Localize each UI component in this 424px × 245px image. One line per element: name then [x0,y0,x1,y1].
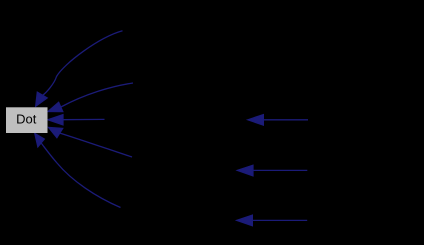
arrowhead edge node2->Dot [48,102,63,112]
arrowhead right B [237,165,253,176]
arrowhead right C [236,215,252,226]
edge from right node C to node5 : horizontal arrow [253,219,308,221]
edge from right node B to node4 : horizontal arrow [253,169,307,171]
edge from right node A to node3 : horizontal arrow [264,119,309,121]
arrowhead edge node4->Dot [48,127,63,138]
arrowhead edge node1->Dot [36,92,48,107]
edge from node4 (lower diagonal) to Dot [60,133,132,157]
svg-text:Dot: Dot [16,112,37,127]
node Dot : grey box [6,107,48,133]
arrowhead edge node3->Dot [48,114,64,125]
edge from node3 (horizontal) to Dot [63,118,104,120]
arrowhead right A [247,114,263,125]
edge from node2 (upper diagonal) to Dot [61,83,133,107]
edge from node5 (bottom) to Dot : curved [41,143,120,207]
node Dot label [16,112,37,127]
arrowhead edge node5->Dot [35,133,45,147]
edge from node1 (top) to Dot : curved [42,31,122,96]
